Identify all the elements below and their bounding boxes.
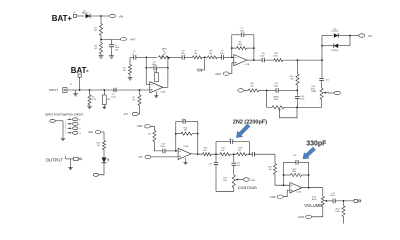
svg-text:100n: 100n [260, 55, 264, 57]
node stage3 output [197, 153, 199, 155]
wire pot to C8 [168, 56, 182, 58]
svg-text:GND: GND [137, 125, 143, 128]
wire to 4V7 tag [350, 35, 359, 37]
footswitch pole G [68, 132, 72, 134]
net tag +9V [110, 14, 116, 17]
svg-text:680k: 680k [238, 44, 242, 46]
svg-text:1M: 1M [107, 99, 110, 101]
net tag LED cathode [93, 173, 99, 176]
svg-text:CONTOUR: CONTOUR [238, 186, 257, 190]
node diode branch lower tee [321, 45, 323, 47]
connector output jack [74, 157, 79, 160]
feedback loop right vertical stage2 [253, 35, 255, 60]
svg-text:100n: 100n [111, 96, 115, 98]
wire C21 to contour pot [233, 165, 235, 175]
wire treble pot bottom [321, 99, 323, 107]
wire clipping vertical up [321, 36, 323, 61]
node loop resistor right stage3 [197, 133, 199, 135]
capacitor C8 220n [181, 55, 183, 60]
net tag contour wiper [243, 178, 249, 181]
resistor R10 100k [274, 59, 283, 62]
svg-text:A50k: A50k [312, 198, 317, 201]
net tag tone input [238, 89, 244, 92]
node chain B [233, 153, 235, 155]
wire C6 left corner down [129, 57, 131, 64]
resistor R3 2.2M to ground [89, 90, 91, 95]
feedback loop right vertical stage1 [167, 57, 169, 87]
node output junction [343, 200, 345, 202]
wire D1 to node 9V [90, 15, 109, 17]
node stage2 output [253, 59, 255, 61]
capacitor C9 100n [221, 55, 223, 60]
wire stage3 output [191, 153, 202, 155]
LED D4 [102, 158, 107, 163]
resistor R2 2k2 [99, 43, 102, 55]
node diode right [349, 35, 351, 37]
connector pin BAT- [78, 74, 81, 77]
resistor R20 10k vertical [273, 164, 276, 175]
wire bass bottom rail [267, 90, 272, 107]
footswitch pole B [68, 118, 72, 120]
wire footswitch tag to switch [55, 120, 63, 122]
wire R1 to node 4V5 [100, 36, 102, 43]
wire LED tag to R24 [101, 132, 104, 141]
capacitor C1 10uF 16V [109, 44, 114, 46]
node chain A [215, 153, 217, 155]
capacitor C5 series input [113, 88, 115, 93]
wire input rail [67, 89, 150, 91]
feedback loop left vertical stage4 [283, 162, 285, 185]
svg-text:1N4007: 1N4007 [82, 13, 90, 15]
svg-text:47n: 47n [209, 164, 212, 166]
wire R20 to stage4 inv input [275, 175, 290, 186]
connector pin BAT+ [73, 14, 76, 17]
capacitor C21 10n below node B [233, 154, 235, 162]
svg-text:GND: GND [251, 180, 256, 182]
wire tag to R14 [151, 126, 155, 130]
ground below box [102, 106, 106, 108]
svg-text:39k: 39k [290, 79, 293, 81]
resistor R23 100k pulldown [343, 201, 345, 206]
annotation blue arrow to C15 [236, 124, 250, 138]
svg-text:10n: 10n [326, 80, 329, 82]
svg-text:+4V7: +4V7 [130, 38, 137, 42]
wire footswitch vertical to ground [62, 121, 64, 139]
feedback loop right vertical stage3 [197, 122, 199, 155]
svg-text:1u: 1u [132, 54, 134, 56]
input jack J1 [63, 88, 67, 93]
svg-text:OUTPUT: OUTPUT [46, 157, 64, 162]
output pin tick [65, 156, 67, 159]
net tag treble wiper [334, 91, 340, 94]
svg-text:GND: GND [215, 72, 221, 76]
footswitch pole I [68, 123, 72, 125]
svg-text:150n: 150n [274, 86, 278, 88]
resistor R12 39k vertical [297, 60, 299, 74]
svg-text:100k: 100k [292, 171, 296, 173]
resistor R18 10k [237, 153, 247, 156]
loop top wire stage4 [284, 161, 297, 163]
wire C11 to treble pot [321, 80, 323, 88]
node stage3 inv input [175, 150, 177, 152]
ground footswitch [61, 137, 65, 139]
node 9V junction [100, 15, 102, 17]
resistor R8 10k [208, 56, 218, 59]
capacitor C19 100n [332, 199, 334, 204]
ground below input jack [73, 93, 78, 95]
feedback loop right vertical stage4 [308, 162, 310, 188]
diode D2 1N4148 [334, 33, 338, 37]
resistor R21 100k feedback [284, 174, 291, 176]
connector pin output jack [354, 199, 358, 202]
wire output ground stem [70, 159, 72, 168]
capacitor C15 2N2 [230, 139, 232, 144]
svg-text:GND: GND [270, 195, 276, 199]
svg-text:100n: 100n [300, 98, 304, 100]
svg-text:100n: 100n [330, 195, 334, 197]
svg-text:IC2B: IC2B [297, 191, 302, 193]
capacitor C12 150n [267, 89, 276, 91]
svg-text:100k: 100k [274, 99, 278, 101]
wire lower diode branch [322, 45, 334, 47]
resistor R4 1M to vref tag [139, 90, 141, 95]
node chain C [248, 153, 250, 155]
svg-text:50k: 50k [223, 180, 226, 182]
capacitor C7 470p feedback [241, 33, 243, 38]
wire R10 to clipping node [283, 59, 322, 61]
node stage2 inv input [231, 56, 233, 58]
wire node 4V5 to tag [101, 39, 121, 41]
wire op-amp1 output [163, 86, 168, 88]
resistor R5 1M to ground [128, 65, 131, 75]
net tag +4V7 [121, 38, 127, 41]
svg-text:47k: 47k [148, 134, 151, 136]
net tag GND volume [306, 215, 312, 218]
resistor R14 47k [153, 131, 156, 142]
svg-text:TREB: TREB [311, 91, 317, 93]
svg-text:1k: 1k [163, 51, 165, 53]
capacitor C14 100n below node [296, 90, 298, 95]
net tag 4V7 clipping [359, 34, 365, 37]
op-amp IC2B stage4 [290, 183, 302, 193]
bypass branch with 2N2 cap [216, 142, 231, 155]
wire cap branch stage1 [146, 67, 153, 69]
node loop resistor left [231, 47, 233, 49]
feedback loop left vertical stage2 [231, 35, 233, 58]
wire bass rail right [284, 106, 322, 108]
svg-text:+9V: +9V [119, 14, 124, 18]
ground below R2 [98, 55, 103, 57]
ground below R3 [87, 105, 92, 107]
wire top diode branch [322, 35, 333, 37]
capacitor C17 47p feedback [182, 119, 184, 124]
loop top wire stage3 [176, 121, 183, 123]
svg-text:1M: 1M [123, 70, 126, 72]
svg-text:10k: 10k [221, 150, 224, 152]
feedback loop left vertical stage1 [145, 57, 147, 84]
svg-text:BAT+: BAT+ [52, 14, 73, 23]
wire clipping node down to C11 [321, 60, 323, 78]
node box component junction [103, 89, 105, 91]
svg-text:100k: 100k [273, 55, 277, 57]
wire LED cathode down [99, 163, 104, 175]
svg-text:1M: 1M [184, 130, 187, 132]
svg-text:C15: C15 [228, 139, 231, 141]
wire R7 to R8 [202, 56, 208, 58]
wire contour wiper to tag [238, 179, 244, 181]
resistor R16b 10k [203, 153, 212, 156]
resistor R17 10k [220, 153, 230, 156]
node stage4 output [308, 187, 310, 189]
wire chain down to R20 [274, 154, 276, 163]
wire volume bottom to GND tag [312, 206, 323, 217]
svg-text:IC2A: IC2A [184, 145, 189, 148]
wire R11 to node [259, 89, 267, 91]
capacitor C10 100n [261, 58, 263, 63]
wire BAT+ pin to diode D1 [77, 15, 85, 17]
svg-text:IC1B: IC1B [245, 64, 250, 66]
wire R8 to C9 [217, 56, 222, 58]
potentiometer CONTOUR 50k [232, 175, 235, 188]
svg-text:10k: 10k [238, 150, 241, 152]
node input rail at BAT- [79, 89, 81, 91]
box component L1 [103, 90, 105, 95]
node stage4 inv input [283, 184, 285, 186]
svg-text:4V7: 4V7 [124, 113, 129, 116]
wire top chain [130, 56, 134, 58]
svg-text:VOLUME: VOLUME [304, 203, 322, 208]
node R4 junction [139, 89, 141, 91]
ground output jack [68, 167, 72, 169]
node 4V5 junction [100, 39, 102, 41]
svg-text:100n: 100n [220, 53, 224, 55]
svg-text:IC1A: IC1A [161, 91, 166, 94]
potentiometer TREBLE 100k [320, 88, 323, 99]
capacitor C20 47n below node A [215, 154, 217, 162]
capacitor C13 100n [162, 149, 164, 154]
wire R24 to LED [103, 150, 105, 158]
wire 4V7 branch to C1 [111, 40, 113, 45]
wire jack sleeve to ground [75, 90, 77, 94]
svg-text:GND: GND [298, 215, 304, 219]
wire tag to noninv input [151, 156, 178, 158]
svg-text:100n: 100n [160, 146, 164, 148]
resistor R7 10k [192, 56, 202, 59]
diode D1 1N4007 [86, 14, 91, 18]
switch mechanical dotted link [65, 122, 67, 134]
wire stage2 noninv input to GND tag [229, 63, 234, 74]
wire R2 to ground [100, 54, 102, 56]
capacitor C6 series [133, 55, 135, 60]
ground below C1 [109, 55, 114, 57]
node tone mid junction [296, 90, 298, 92]
wire stage2 output [247, 59, 262, 61]
wire bass wiper loop [280, 107, 298, 117]
wire output to jack [66, 158, 74, 160]
wire node A cap down to contour rail [215, 164, 217, 191]
wire contour bottom rail [216, 188, 234, 192]
svg-text:4V7: 4V7 [368, 34, 373, 38]
resistor R15 1M feedback [176, 133, 181, 135]
node loop resistor left stage4 [283, 174, 285, 176]
svg-text:10k: 10k [203, 150, 206, 152]
wire tag to R11 [244, 89, 249, 91]
svg-text:DPDT FOOTSWITCH (3PDT): DPDT FOOTSWITCH (3PDT) [45, 113, 83, 117]
resistor R11 3k9 [248, 89, 258, 92]
svg-text:LED: LED [88, 131, 93, 134]
op-amp IC2A stage3 [178, 148, 191, 159]
loop top wire stage2 [232, 34, 242, 36]
net tag LED [95, 131, 101, 134]
svg-text:100k: 100k [335, 211, 339, 213]
wire C1 to ground [111, 47, 113, 56]
resistor R24 4k7 [102, 141, 105, 150]
capacitor C16 100n series [251, 152, 253, 157]
footswitch pole O [68, 127, 72, 129]
node top chain right of pot [167, 56, 169, 58]
op-amp IC1A stage1 [150, 82, 163, 93]
potentiometer BASS 100k [272, 106, 284, 109]
ground below R5 [128, 77, 133, 79]
node loop left top [145, 56, 147, 58]
wire down to connector A [201, 57, 204, 70]
capacitor C4 100p feedback [153, 66, 155, 71]
svg-text:10k: 10k [209, 53, 212, 55]
svg-text:2.2M: 2.2M [92, 99, 97, 101]
svg-text:1N4148: 1N4148 [331, 50, 339, 52]
box resistor in loop stage1 [156, 68, 158, 73]
wire R23 down [343, 217, 345, 224]
ground below op-amp 3 [185, 158, 187, 162]
wire BAT- pin down to input rail [79, 77, 81, 90]
op-amp IC1B stage2 [234, 55, 247, 66]
wire stage4 output to volume [302, 188, 323, 197]
wire treble wiper to tag [326, 92, 335, 94]
svg-text:220n: 220n [181, 53, 185, 55]
resistor R6 680k feedback [232, 47, 237, 49]
wire stage4 noninv input to GND tag [283, 190, 290, 197]
node loop resistor right stage4 [308, 174, 310, 176]
node clipping vertical [321, 59, 323, 61]
svg-text:10k: 10k [194, 53, 197, 55]
svg-text:10k: 10k [269, 169, 272, 171]
svg-text:BAT-: BAT- [71, 66, 89, 75]
node loop resistor left stage3 [175, 133, 177, 135]
wire volume wiper to C19 [327, 200, 333, 202]
resistor R1 2k2 [99, 24, 102, 36]
capacitor C18 330p feedback [295, 160, 297, 165]
svg-text:10n: 10n [237, 165, 240, 167]
svg-text:INPUT: INPUT [49, 88, 58, 92]
node loop resistor right [253, 47, 255, 49]
net tag footswitch left [50, 119, 56, 122]
svg-text:1M: 1M [132, 100, 135, 102]
potentiometer VOLUME A50k [321, 196, 324, 206]
node bass left junction [266, 90, 268, 92]
wire inverting input stage1 [146, 83, 150, 85]
wire to GAIN pot [146, 56, 157, 58]
node drop to connector A [204, 56, 206, 58]
svg-text:2N2 (2200pF): 2N2 (2200pF) [233, 119, 267, 125]
wire diode right vertical [349, 36, 351, 46]
svg-text:1N4148: 1N4148 [331, 31, 339, 33]
net tag GND stage4 [277, 195, 283, 198]
node loop right cap branch [167, 67, 169, 69]
connector pin A [198, 69, 202, 71]
feedback loop left vertical stage3 [175, 122, 177, 151]
diode D3 1N4148 [334, 44, 338, 48]
svg-text:1k: 1k [154, 71, 156, 73]
node bass rail junction [296, 107, 298, 109]
wire R14 to C13 [154, 142, 163, 151]
ground below op-amp 1 [155, 92, 157, 96]
svg-text:4V7: 4V7 [139, 156, 144, 159]
net tag GND stage2 [223, 72, 229, 75]
capacitor C11 10n [319, 78, 324, 80]
node loop left cap branch [145, 67, 147, 69]
svg-text:330pF: 330pF [306, 140, 327, 147]
net tag 4V7 below R4 [132, 112, 138, 115]
wire C9 to stage2 inverting input [224, 56, 234, 58]
node R3 junction [89, 89, 91, 91]
annotation blue arrow to C18 [303, 147, 316, 159]
node R12 top [297, 59, 299, 61]
wire node 9V down to R1 [100, 16, 102, 24]
potentiometer GAIN 1k [159, 56, 170, 59]
